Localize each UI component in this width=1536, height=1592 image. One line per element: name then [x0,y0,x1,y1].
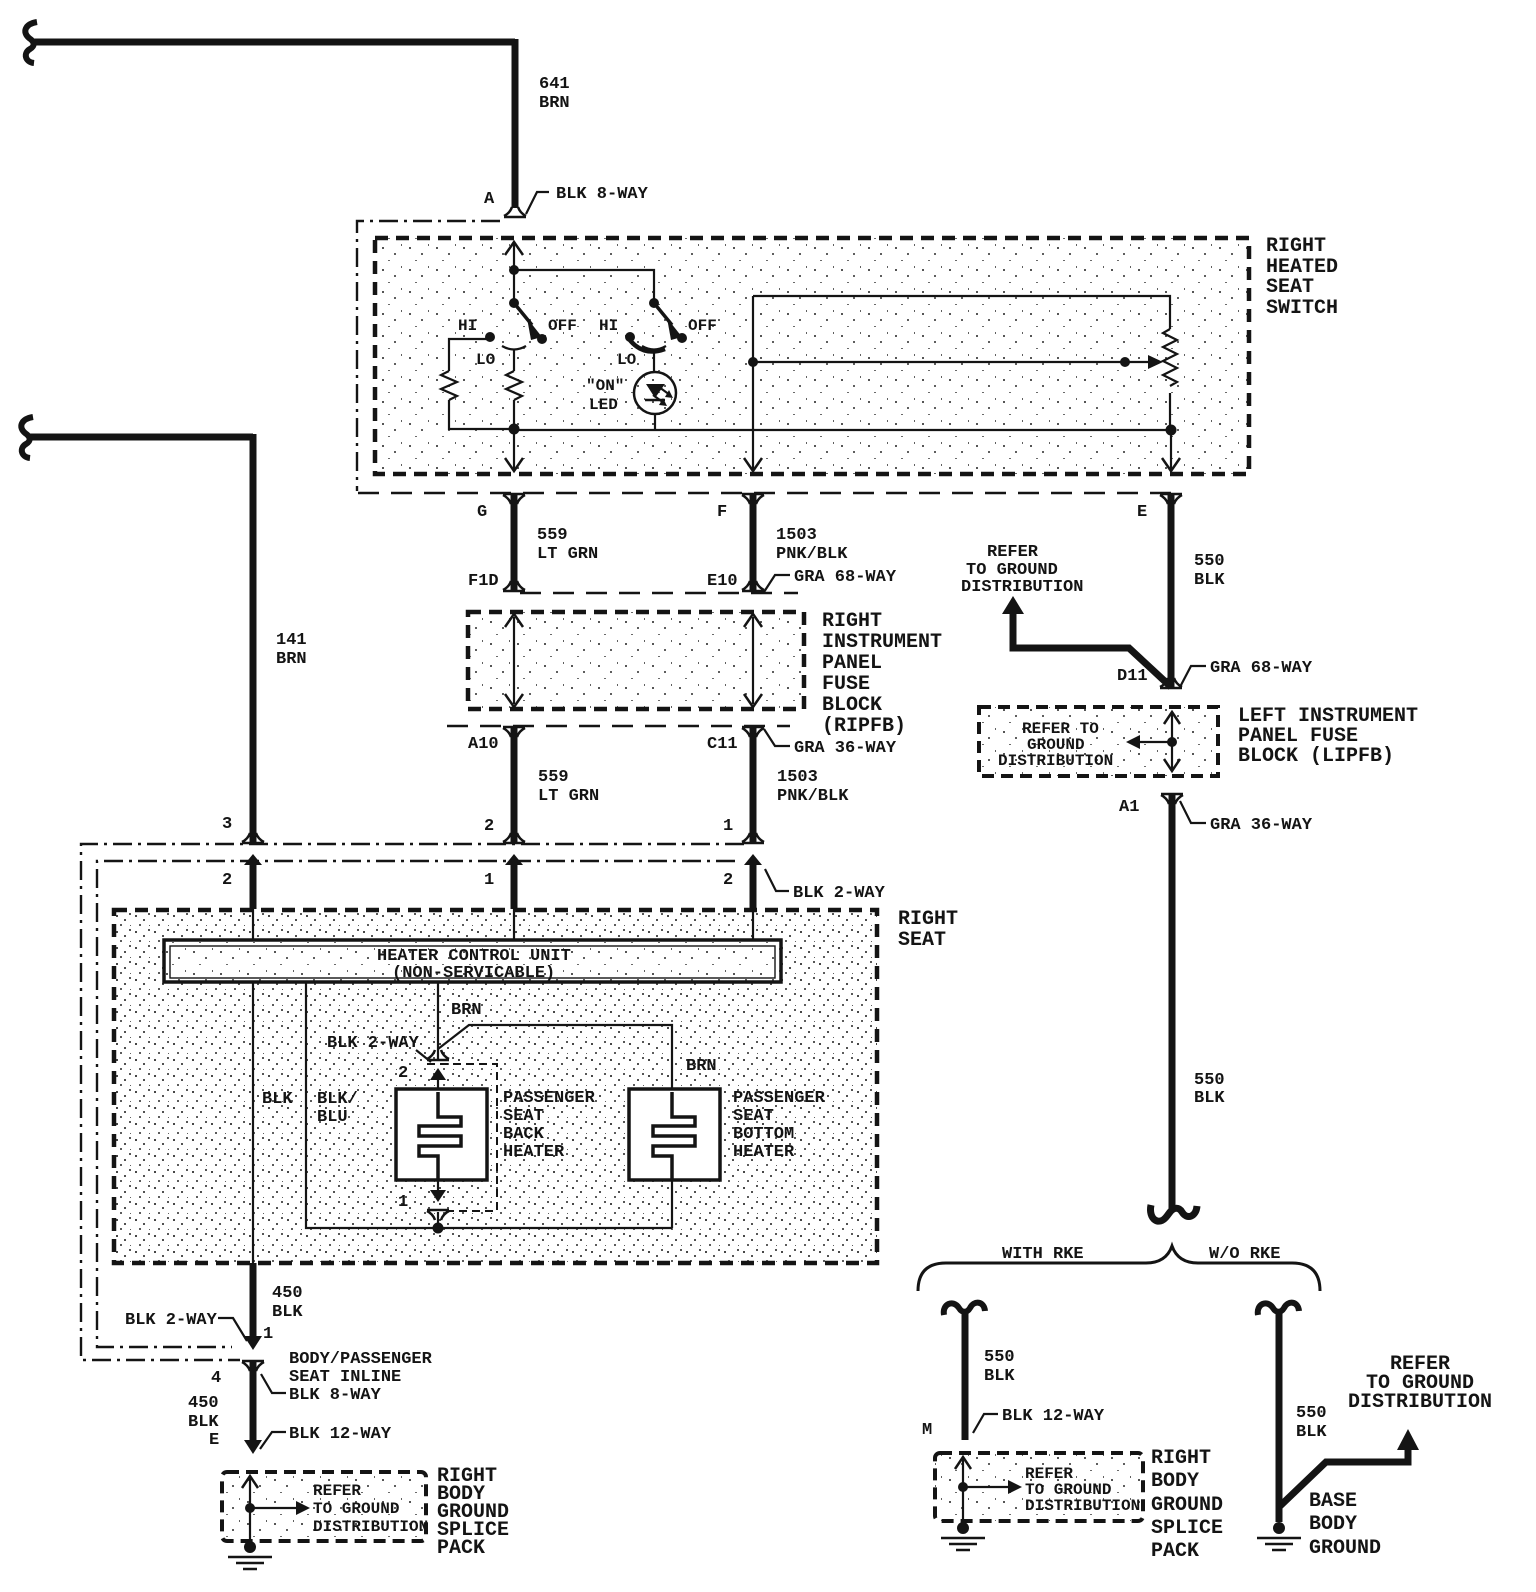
svg-text:1: 1 [484,871,494,890]
wire BRN branch to bottom heater [438,1025,672,1089]
svg-text:OFF: OFF [548,317,577,335]
bottom rail wire [514,429,1171,431]
svg-text:(RIPFB): (RIPFB) [822,715,906,738]
svg-text:BASE: BASE [1309,1490,1357,1513]
wire F vertical [752,296,754,469]
node junction [509,265,519,275]
wire 550 BLK from switch E [1168,495,1175,687]
svg-text:SEAT: SEAT [503,1107,544,1126]
svg-text:2: 2 [222,871,232,890]
svg-text:SPLICE: SPLICE [1151,1517,1223,1540]
wire 1503 PNK/BLK lower [750,728,757,842]
pin 1 arrow [430,1190,446,1202]
left instrument panel fuse block box [979,707,1218,776]
inline connector terminal pin1 [427,1210,449,1220]
svg-text:3: 3 [222,815,232,834]
svg-text:GRA 68-WAY: GRA 68-WAY [794,568,897,587]
wire 559 LT GRN upper [511,495,518,590]
svg-text:550: 550 [1296,1404,1327,1423]
left option wire hook [944,1303,985,1315]
svg-text:450: 450 [272,1284,303,1303]
svg-text:TO GROUND: TO GROUND [313,1500,399,1518]
node back heater return [433,1223,444,1234]
svg-text:BLOCK: BLOCK [822,694,882,717]
option brace [918,1246,1320,1291]
svg-text:E: E [209,1431,219,1450]
switch S1 pivot [509,298,519,308]
LIPFB node [1167,737,1177,747]
terminal D11 [1160,678,1182,688]
terminal A1 [1161,794,1183,804]
svg-text:SWITCH: SWITCH [1266,297,1338,320]
svg-text:BLK 2-WAY: BLK 2-WAY [327,1034,420,1053]
switch S2 pivot [649,298,659,308]
svg-text:550: 550 [1194,552,1225,571]
branch to ground distribution bottom [1279,1447,1408,1507]
wire 141 BRN feed [21,417,306,842]
RIPFB internal circuit arrow 2 [752,617,754,704]
wire 550 BLK long [1169,795,1176,1211]
wire to second switch [514,270,654,303]
entry arrow pin A [505,242,523,255]
wire 141 BRN horizontal [29,434,253,441]
connector terminal A [504,207,526,217]
inline connector terminal pin2 [427,1050,449,1060]
wire node to pin E [1170,430,1172,469]
terminal A10 [503,727,525,737]
right instrument panel fuse block box [468,612,804,709]
svg-text:RIGHT: RIGHT [1266,235,1326,258]
connector terminal E [1160,494,1182,504]
svg-text:HI: HI [458,317,477,335]
svg-text:A10: A10 [468,735,499,754]
wire R1 to node [449,400,514,429]
svg-text:641: 641 [539,75,570,94]
wire LED to bottom rail [654,414,656,430]
wire 1503 PNK/BLK upper [750,495,757,590]
svg-text:BLK: BLK [272,1303,303,1322]
svg-text:PACK: PACK [437,1537,485,1560]
RIPFB lower connector face line [447,725,790,727]
seat outer dash-dot frame [81,844,744,1360]
svg-text:BLK: BLK [188,1413,219,1432]
wire BRN from control unit [437,982,439,1059]
ground base body [1273,1522,1285,1534]
wire 550 BLK with RKE [962,1311,969,1440]
splice pack 2 internal wire [962,1459,964,1528]
splice 2 arrow [963,1486,1008,1488]
pin arrows into seat [244,854,262,865]
terminal at seat connector W2 [503,833,525,843]
wire 641 BRN vertical [512,39,519,208]
switch S2 OFF contact [677,333,687,343]
svg-text:BLK 8-WAY: BLK 8-WAY [289,1386,382,1405]
svg-text:DISTRIBUTION: DISTRIBUTION [961,578,1083,597]
back heater pin1 lead [437,1180,439,1196]
svg-text:A1: A1 [1119,798,1139,817]
back heater element [419,1092,461,1180]
seat inner dash-dot frame [97,861,735,1347]
bottom heater return lead [671,1180,673,1228]
exit arrow pin G [505,458,523,471]
switch S2 arm to OFF [654,303,672,325]
connector terminal G [503,494,525,504]
svg-text:E10: E10 [707,572,738,591]
switch S1 HI contact [485,332,495,342]
svg-text:BRN: BRN [686,1057,717,1076]
bottom heater element [653,1092,695,1180]
svg-text:550: 550 [984,1348,1015,1367]
LED D1 circle [634,372,676,414]
svg-text:GRA 36-WAY: GRA 36-WAY [794,739,897,758]
wiper wire [753,361,1150,363]
wire 450 BLK seat side [250,1263,257,1338]
svg-text:DISTRIBUTION: DISTRIBUTION [998,752,1113,770]
right heated seat switch dashed box [375,238,1249,474]
svg-text:BRN: BRN [539,94,570,113]
svg-text:BODY/PASSENGER: BODY/PASSENGER [289,1350,433,1369]
svg-text:FUSE: FUSE [822,673,870,696]
right heated seat switch: connector dash-dot frame [357,221,500,491]
switch S1 LO contact seat [502,346,526,350]
svg-text:REFER: REFER [987,543,1039,562]
svg-text:BLK: BLK [1296,1423,1327,1442]
switch S2 wiper arc [629,339,665,351]
svg-text:141: 141 [276,631,307,650]
svg-text:1: 1 [263,1325,273,1344]
svg-text:DISTRIBUTION: DISTRIBUTION [1025,1497,1140,1515]
wire-continuation hook [21,417,33,458]
svg-text:BRN: BRN [451,1001,482,1020]
terminal at seat connector W1 [242,833,264,843]
svg-text:OFF: OFF [688,317,717,335]
splice arrow to ground distribution [250,1507,296,1509]
svg-text:SEAT: SEAT [733,1107,774,1126]
svg-text:559: 559 [537,526,568,545]
switch S2 HI contact [625,332,635,342]
splice node [245,1503,255,1513]
heater control unit box [164,940,781,982]
wire HI to resistor R1 [449,339,490,371]
svg-text:WITH RKE: WITH RKE [1002,1245,1084,1264]
terminal at seat connector W3 [742,833,764,843]
wire BLK from control unit [252,982,254,1263]
svg-text:PNK/BLK: PNK/BLK [777,787,849,806]
RIPFB internal circuit arrow 1 [513,617,515,704]
svg-text:REFER: REFER [313,1482,361,1500]
svg-text:BLK: BLK [1194,571,1225,590]
svg-text:LT GRN: LT GRN [538,787,599,806]
exit arrow pin F [744,458,762,471]
LIPFB internal wire [1171,714,1173,769]
potentiometer R3 [1163,329,1177,386]
svg-text:1: 1 [398,1193,408,1212]
switch 8-way connector face line [358,492,1183,494]
wire-continuation hook [25,22,37,63]
svg-text:DISTRIBUTION: DISTRIBUTION [1348,1391,1492,1414]
svg-text:RIGHT: RIGHT [822,610,882,633]
svg-text:1503: 1503 [776,526,817,545]
ground G401 [244,1541,256,1553]
wire 641 BRN feed (hot) [25,22,648,217]
switch S1 OFF contact [537,334,547,344]
RIPFB connector face line [520,592,798,594]
svg-text:BLK 12-WAY: BLK 12-WAY [289,1425,392,1444]
svg-text:BLK: BLK [262,1090,293,1109]
splice 2 node [958,1482,968,1492]
inline 2-way connector dashed outline [427,1064,497,1211]
svg-text:2: 2 [398,1064,408,1083]
svg-text:F1D: F1D [468,572,499,591]
wire 559 LT GRN lower [511,728,518,842]
LED D1 emission arrows [659,387,670,395]
svg-text:GRA 36-WAY: GRA 36-WAY [1210,816,1313,835]
pin 2 arrow [430,1068,446,1080]
terminal pin 4 [242,1361,264,1371]
svg-text:BODY: BODY [1151,1470,1199,1493]
exit arrow pin E [1162,458,1180,471]
LED D1 cathode bar [645,399,665,402]
svg-text:HEATER: HEATER [733,1143,795,1162]
svg-text:LT GRN: LT GRN [537,545,598,564]
terminal C11 [742,727,764,737]
terminal E10 [742,581,764,591]
svg-text:D11: D11 [1117,667,1148,686]
svg-text:E: E [1137,503,1147,522]
wiper node [1120,357,1130,367]
ground distribution branch arrow [1002,596,1024,614]
wire LO to resistor R2 [513,350,515,371]
node wiper [748,357,758,367]
svg-text:PACK: PACK [1151,1540,1199,1563]
svg-text:BLK/: BLK/ [317,1090,358,1109]
svg-text:W/O RKE: W/O RKE [1209,1245,1280,1264]
svg-text:G: G [477,503,487,522]
svg-text:BLU: BLU [317,1108,348,1127]
wire 641 BRN horizontal [33,39,515,46]
svg-text:DISTRIBUTION: DISTRIBUTION [313,1518,428,1536]
svg-text:2: 2 [723,871,733,890]
svg-text:BLK 2-WAY: BLK 2-WAY [125,1311,218,1330]
svg-text:LED: LED [589,396,618,414]
connector terminal F [742,494,764,504]
wire 450 BLK body side [250,1362,257,1441]
right body ground splice pack box [222,1472,426,1541]
svg-text:M: M [922,1421,932,1440]
svg-text:BRN: BRN [276,650,307,669]
svg-text:RIGHT: RIGHT [1151,1447,1211,1470]
pin E arrow down [244,1440,262,1454]
svg-text:BLK 8-WAY: BLK 8-WAY [556,185,649,204]
LIPFB arrow to ground distribution [1136,741,1172,743]
svg-text:1: 1 [723,817,733,836]
svg-text:BODY: BODY [1309,1513,1357,1536]
node junction G [509,424,520,435]
terminal F1D [503,581,525,591]
svg-text:RIGHT: RIGHT [898,908,958,931]
wire 141 BRN vertical [250,434,257,842]
wires into heater control unit [252,909,254,940]
svg-text:HI: HI [599,317,618,335]
svg-text:SEAT: SEAT [1266,276,1314,299]
wire LO to LED [653,350,655,372]
svg-text:(NON-SERVICABLE): (NON-SERVICABLE) [392,964,555,983]
svg-text:1503: 1503 [777,768,818,787]
svg-text:559: 559 [538,768,569,787]
svg-text:C11: C11 [707,735,738,754]
top rail wire [753,296,1170,329]
ground G402 [957,1522,969,1534]
passenger seat back heater box [396,1089,487,1180]
splice pack internal wire [249,1478,251,1547]
wire pot to node [1169,393,1171,429]
svg-text:F: F [717,503,727,522]
svg-text:BLK 2-WAY: BLK 2-WAY [793,884,886,903]
wire pin1 to return [437,1212,439,1228]
wire R2 to node [513,400,515,429]
svg-text:BLK 12-WAY: BLK 12-WAY [1002,1407,1105,1426]
svg-text:LO: LO [617,351,637,369]
switch S2 LO contact seat [642,346,666,350]
wire 550 BLK w/o RKE [1276,1311,1283,1522]
svg-text:PNK/BLK: PNK/BLK [776,545,848,564]
svg-text:HEATER: HEATER [503,1143,565,1162]
resistor R2 [506,371,522,400]
wire BLK/BLU from control unit [306,982,672,1228]
resistor R1 [441,371,457,400]
svg-text:GROUND: GROUND [1309,1537,1381,1560]
svg-text:GROUND: GROUND [1151,1494,1223,1517]
pin 1 arrow down [244,1336,262,1350]
seat-side wires [250,860,257,909]
svg-text:450: 450 [188,1394,219,1413]
passenger seat bottom heater box [629,1089,720,1180]
switch S1 arm to OFF [514,303,532,325]
svg-text:2: 2 [484,817,494,836]
svg-text:PANEL: PANEL [822,652,882,675]
svg-text:BACK: BACK [503,1125,545,1144]
svg-text:BLOCK (LIPFB): BLOCK (LIPFB) [1238,745,1394,768]
LED D1 triangle [646,384,665,398]
svg-text:BLK: BLK [984,1367,1015,1386]
svg-text:PASSENGER: PASSENGER [733,1089,826,1108]
svg-text:LO: LO [476,351,496,369]
svg-text:SEAT INLINE: SEAT INLINE [289,1368,401,1387]
svg-text:GRA 68-WAY: GRA 68-WAY [1210,659,1313,678]
svg-text:BLK: BLK [1194,1089,1225,1108]
svg-text:PASSENGER: PASSENGER [503,1089,596,1108]
svg-text:INSTRUMENT: INSTRUMENT [822,631,942,654]
right option wire hook [1258,1303,1299,1315]
wiper arrowhead [1148,355,1163,369]
right seat dashed box [114,910,877,1263]
wire node to pin G [513,429,515,469]
svg-text:SEAT: SEAT [898,929,946,952]
svg-text:A: A [484,190,495,209]
svg-text:BOTTOM: BOTTOM [733,1125,794,1144]
wire-continuation hook bottom [1150,1205,1197,1221]
wire from pin A [513,244,515,303]
svg-text:550: 550 [1194,1071,1225,1090]
right body ground splice pack 2 box [935,1453,1143,1521]
svg-text:"ON": "ON" [586,377,624,395]
node pot bottom [1166,425,1177,436]
svg-text:4: 4 [211,1369,221,1388]
